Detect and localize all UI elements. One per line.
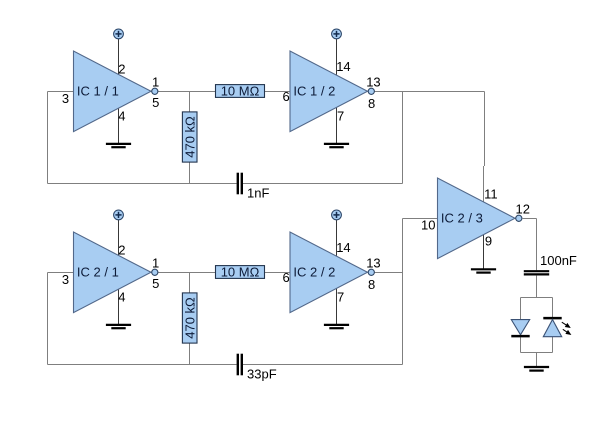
svg-text:7: 7 [337,290,344,305]
svg-text:IC 2 / 2: IC 2 / 2 [293,265,335,280]
svg-text:14: 14 [336,240,350,255]
svg-text:2: 2 [118,62,125,77]
svg-text:3: 3 [62,91,69,106]
svg-text:470 kΩ: 470 kΩ [182,116,197,158]
svg-text:6: 6 [283,89,290,104]
svg-text:11: 11 [484,186,498,201]
svg-text:10 MΩ: 10 MΩ [221,83,260,98]
svg-text:10 MΩ: 10 MΩ [221,264,260,279]
svg-text:6: 6 [283,270,290,285]
svg-text:1nF: 1nF [247,186,269,201]
svg-text:8: 8 [368,96,375,111]
svg-text:13: 13 [366,256,380,271]
svg-text:9: 9 [485,234,492,249]
svg-text:4: 4 [118,290,125,305]
svg-text:3: 3 [62,272,69,287]
svg-text:1: 1 [152,256,159,271]
svg-text:5: 5 [152,95,159,110]
svg-text:IC 1 / 1: IC 1 / 1 [77,84,119,99]
svg-text:12: 12 [516,202,530,217]
svg-text:IC 2 / 3: IC 2 / 3 [441,211,483,226]
svg-text:5: 5 [152,276,159,291]
svg-text:470 kΩ: 470 kΩ [182,297,197,339]
svg-text:2: 2 [118,243,125,258]
svg-text:4: 4 [118,109,125,124]
svg-text:7: 7 [337,109,344,124]
svg-text:IC 1 / 2: IC 1 / 2 [293,84,335,99]
svg-text:10: 10 [421,218,435,233]
svg-text:14: 14 [336,59,350,74]
svg-text:13: 13 [366,75,380,90]
svg-text:100nF: 100nF [540,253,577,268]
svg-text:33pF: 33pF [247,367,277,382]
svg-text:1: 1 [152,75,159,90]
svg-text:8: 8 [368,277,375,292]
svg-text:IC 2 / 1: IC 2 / 1 [77,265,119,280]
